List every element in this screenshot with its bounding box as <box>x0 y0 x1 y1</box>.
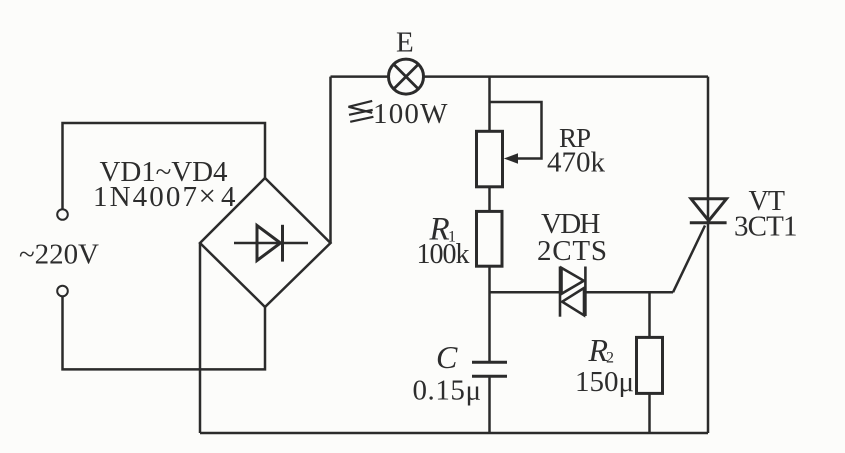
wire top rail down to potentiometer <box>488 77 491 132</box>
diode inside bridge <box>234 225 308 262</box>
terminal T2 lower <box>57 286 68 297</box>
resistor R2 body <box>637 337 663 393</box>
wire diac to R1/C node <box>490 291 561 294</box>
wire top rail down through thyristor to bottom rail <box>707 77 710 433</box>
top rail wire left of lamp <box>331 75 389 78</box>
resistor R1 body <box>477 211 503 266</box>
wire bridge right vertex up to top rail <box>329 77 332 243</box>
lamp E <box>389 59 424 94</box>
svg-text:×: × <box>199 178 216 213</box>
bridge rectifier VD1~VD4 diamond <box>200 178 331 307</box>
svg-text:100W: 100W <box>373 98 448 130</box>
wire bridge left vertex down to bottom rail <box>199 243 202 433</box>
wire capacitor to bottom rail <box>488 378 491 434</box>
diac VDH <box>560 267 585 317</box>
pot wiper bypass wire <box>490 102 542 159</box>
capacitor C plates <box>472 362 507 376</box>
svg-text:E: E <box>396 27 414 59</box>
potentiometer RP body <box>477 131 503 187</box>
less-than-or-equal symbol of lamp rating <box>349 101 374 122</box>
svg-text:470k: 470k <box>547 147 606 179</box>
svg-text:100k: 100k <box>417 239 470 270</box>
wire gate node down to R2 <box>648 292 651 337</box>
wire R1 down through node to capacitor <box>488 266 491 361</box>
wire pot to R1 <box>488 187 491 212</box>
terminal T1 upper <box>57 209 68 220</box>
svg-text:3CT1: 3CT1 <box>734 211 798 243</box>
wire R2 to bottom rail <box>648 393 651 433</box>
bottom rail wire <box>200 432 708 435</box>
top rail wire right of lamp <box>424 75 709 78</box>
svg-text:0.15μ: 0.15μ <box>413 375 482 407</box>
svg-text:150μ: 150μ <box>575 366 634 398</box>
wire upper terminal to bridge top vertex <box>63 123 266 209</box>
wire gate horizontal to diac <box>585 291 673 294</box>
pot wiper arrowhead <box>504 153 518 163</box>
wire thyristor gate diagonal <box>673 226 705 293</box>
svg-text:~220V: ~220V <box>19 239 99 271</box>
wire lower terminal to bridge bottom vertex <box>63 296 266 369</box>
svg-text:4: 4 <box>221 181 236 213</box>
svg-text:C: C <box>436 339 458 375</box>
svg-text:2: 2 <box>606 350 614 367</box>
svg-text:2CTS: 2CTS <box>537 235 607 267</box>
thyristor VT symbol <box>690 199 727 223</box>
